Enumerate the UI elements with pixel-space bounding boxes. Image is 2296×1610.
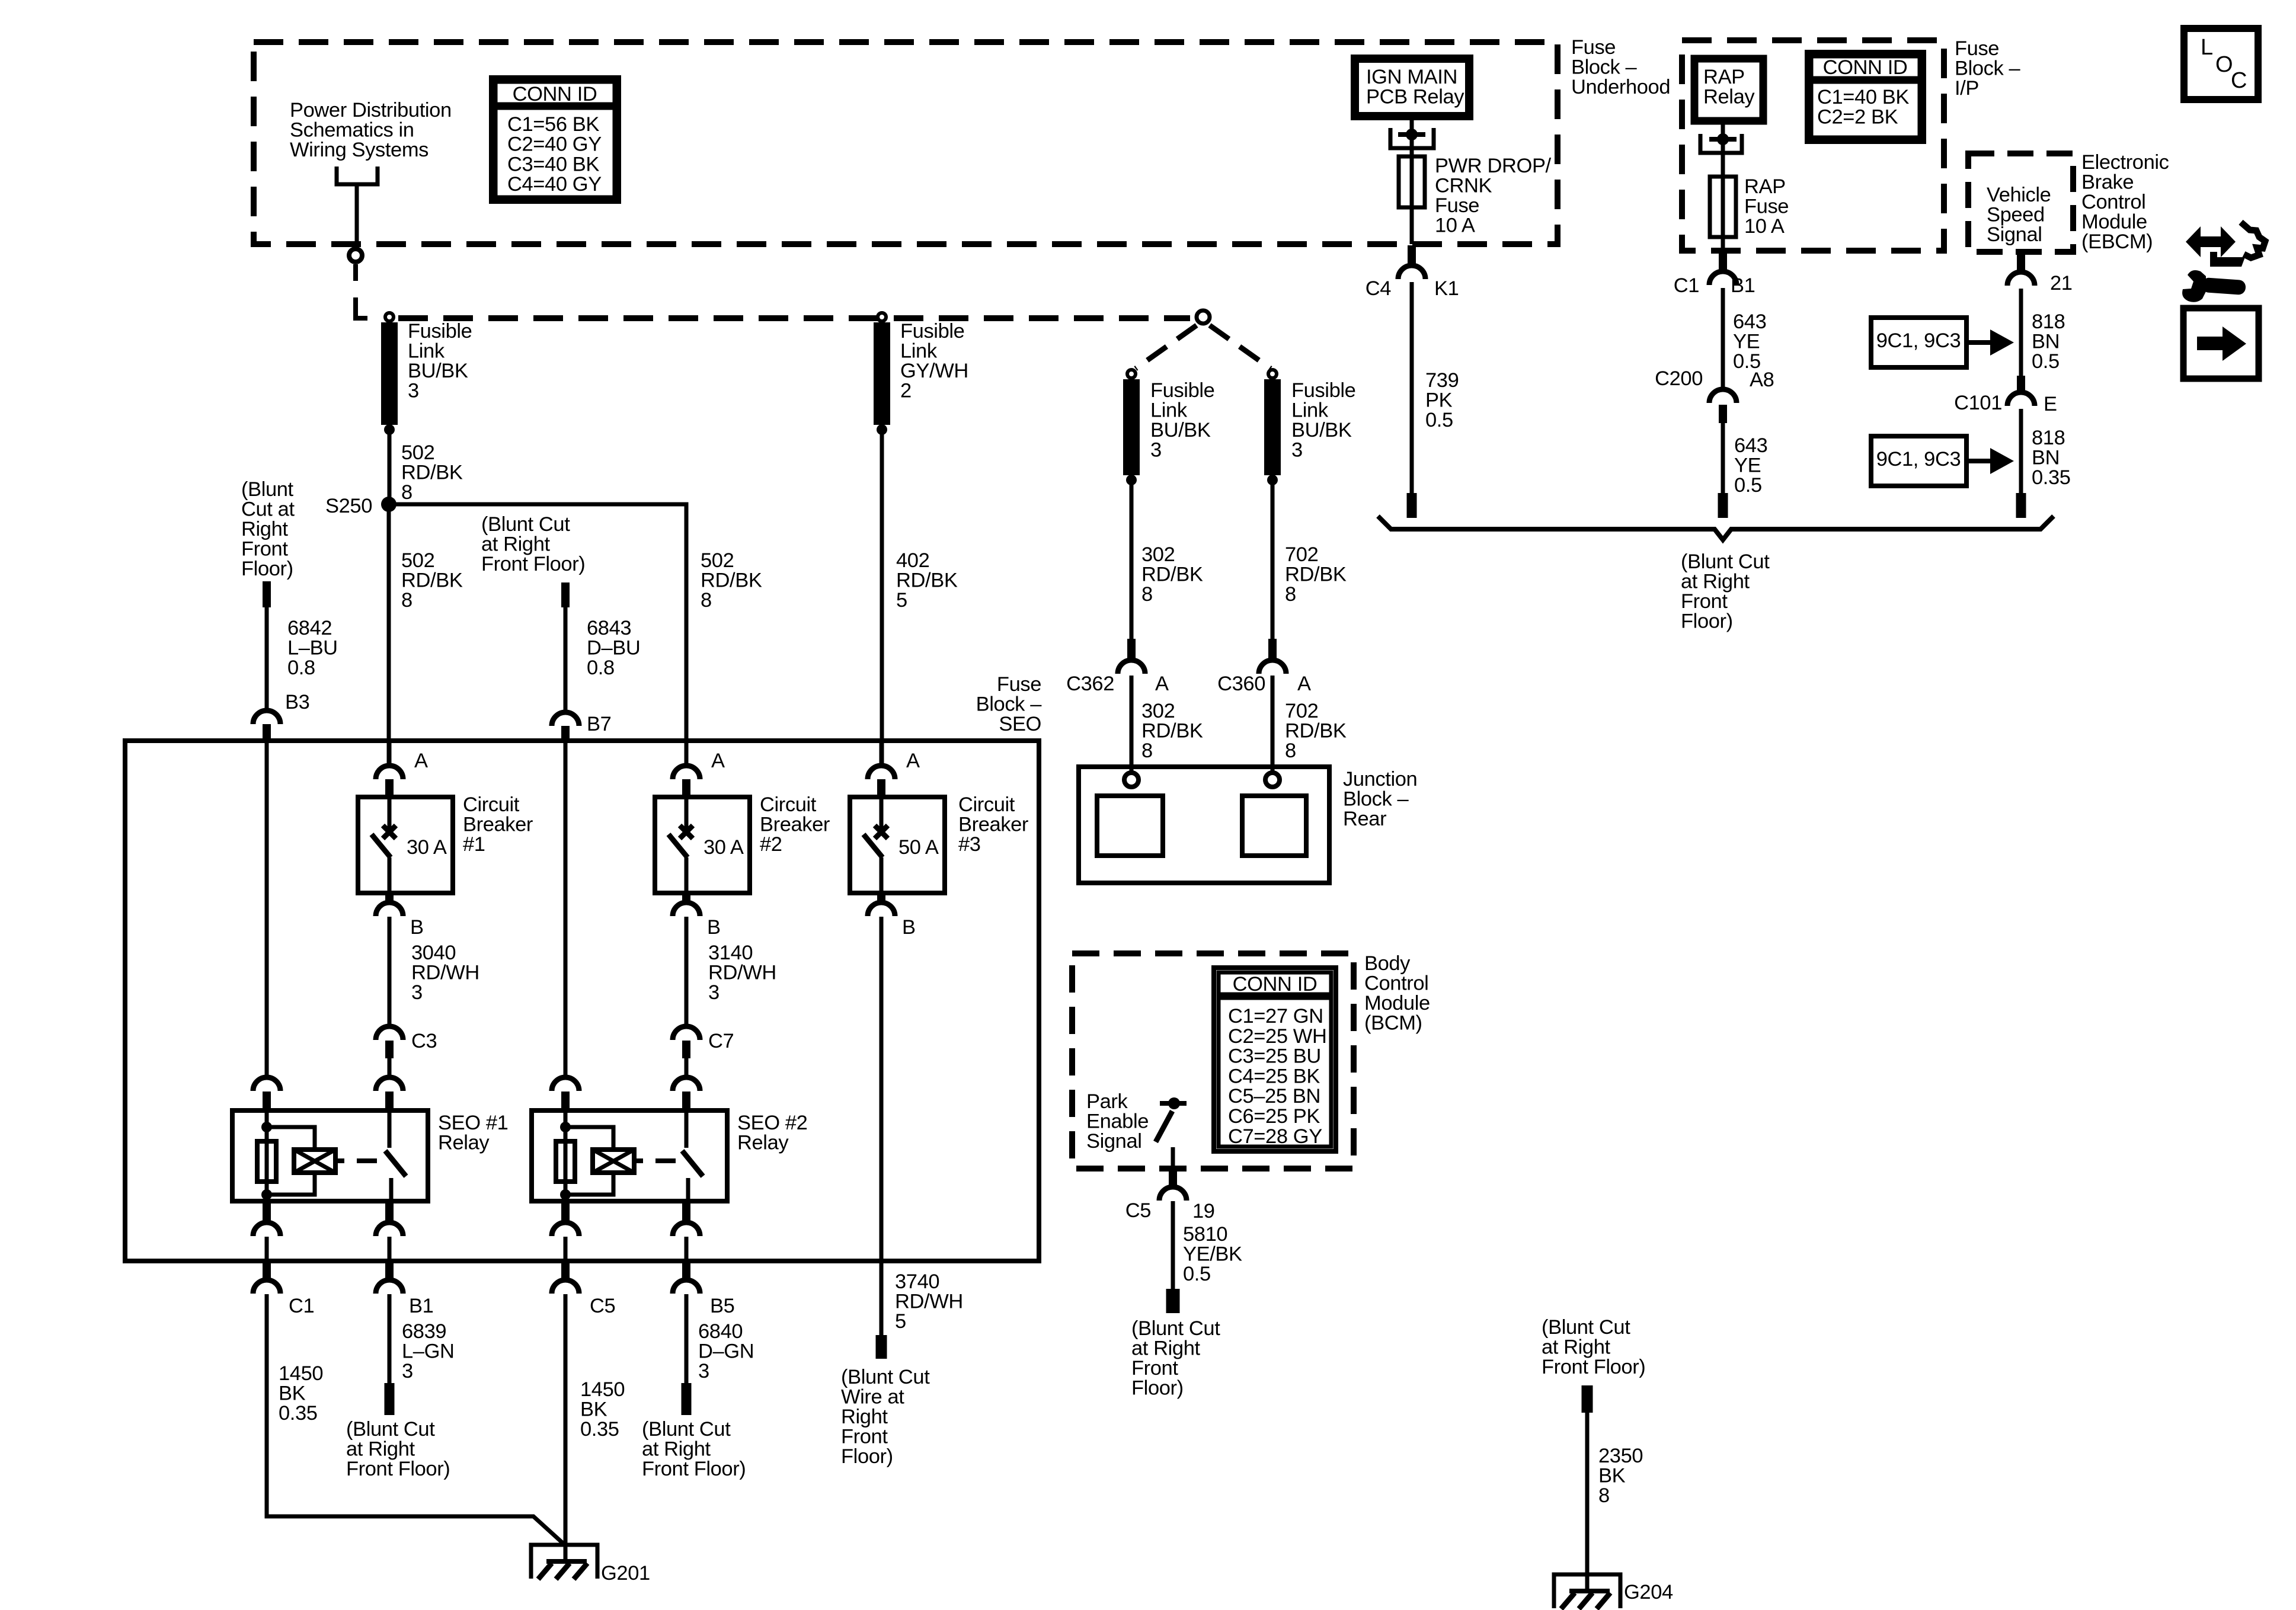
svg-text:CONN ID: CONN ID — [1823, 56, 1908, 79]
wire 643 YE upper — [1721, 288, 1725, 389]
fusible link BU/BK 3 (right of pair) — [1268, 370, 1277, 378]
blunt cut stub 3740 wire — [876, 1335, 887, 1359]
blunt cut stub 2350 wire — [1582, 1385, 1593, 1413]
svg-text:O: O — [2215, 52, 2233, 77]
connector SEO box output pin stub — [561, 1261, 570, 1280]
connector A arc breaker 3 — [868, 766, 895, 779]
connector SEO box output pin stub — [682, 1261, 690, 1280]
svg-text:B: B — [410, 916, 424, 939]
svg-text:50 A: 50 A — [898, 836, 939, 859]
connector SEO box output pin stub — [385, 1261, 394, 1280]
svg-text:C4: C4 — [1366, 277, 1392, 300]
relay SEO #1 coil top dot — [261, 1122, 272, 1132]
connector B pin stub breaker 2 — [682, 893, 690, 902]
svg-text:C1: C1 — [289, 1295, 314, 1317]
connector relay output pin stub — [561, 1201, 570, 1222]
fusible link GY/WH 2 — [878, 313, 886, 321]
connector A arc breaker 1 — [376, 766, 403, 779]
wire to SEO box edge — [685, 1237, 689, 1261]
relay SEO #2 switch — [685, 1110, 689, 1148]
svg-text:IGN MAINPCB Relay: IGN MAINPCB Relay — [1366, 66, 1464, 108]
connector B pin stub breaker 3 — [877, 893, 885, 902]
connector C5 pin stub BCM — [1169, 1171, 1177, 1187]
wire 818 BN lower — [2019, 409, 2023, 493]
CONN ID table I/P — [1807, 52, 1924, 142]
svg-text:CONN ID: CONN ID — [513, 83, 597, 105]
relay SEO #2 solenoid box — [593, 1150, 634, 1173]
relay SEO #2 box — [532, 1110, 727, 1201]
svg-text:B1: B1 — [409, 1295, 433, 1317]
connector B3 arc — [253, 710, 280, 724]
diagnostic icon neck bar — [2210, 252, 2245, 267]
connector relay output arc — [253, 1222, 280, 1236]
blunt cut stub 5810 wire — [1166, 1289, 1180, 1313]
fuse PWR DROP/CRNK 10A — [1399, 156, 1425, 207]
relay SEO #1 coil bottom dot — [261, 1189, 272, 1200]
dashed diagonal to link 3 — [1136, 325, 1197, 369]
fuse block SEO box — [125, 741, 1039, 1261]
svg-text:C3: C3 — [411, 1030, 437, 1052]
relay SEO #1 solenoid box — [294, 1150, 335, 1173]
breaker 3 internals — [880, 797, 884, 828]
svg-text:B: B — [707, 916, 721, 939]
relay SEO #2 coil bottom dot — [560, 1189, 571, 1200]
connector relay output pin stub — [385, 1201, 394, 1222]
svg-text:9C1, 9C3: 9C1, 9C3 — [1876, 448, 1961, 470]
wire bus to breaker 2 — [685, 741, 689, 766]
junction block rear box — [1079, 767, 1329, 883]
svg-text:30 A: 30 A — [703, 836, 744, 859]
circuit breaker #1 box — [358, 797, 453, 893]
junction dot K1 pin — [1406, 129, 1418, 140]
relay SEO #1 actuation dashes — [335, 1158, 344, 1163]
connector C101 pin stub — [2017, 376, 2025, 392]
wire fusible link 2 to breaker 3 — [880, 434, 884, 764]
junction block cavity right — [1242, 796, 1306, 856]
connector C7 upper arc — [673, 1026, 700, 1040]
svg-text:A: A — [414, 750, 428, 772]
diagnostic icon wrench — [2182, 270, 2206, 302]
svg-text:C1=56 BKC2=40 GYC3=40 BKC4=40: C1=56 BKC2=40 GYC3=40 BKC4=40 GY — [507, 113, 602, 196]
wire 739 PK — [1410, 282, 1414, 493]
wire 6839 L-GN from B1 — [388, 1294, 392, 1383]
CONN ID table BCM — [1214, 968, 1336, 1151]
connector C4 arc — [1398, 265, 1425, 279]
wire 6840 D-GN from B5 — [685, 1294, 689, 1383]
wire breaker3 B to bottom — [880, 917, 884, 1335]
svg-text:C1=27 GNC2=25 WHC3=25 BUC4=25: C1=27 GNC2=25 WHC3=25 BUC4=25 BKC5–25 BN… — [1228, 1005, 1327, 1148]
circuit breaker #3 box — [850, 797, 945, 893]
connector relay output arc — [552, 1222, 579, 1236]
connector B3 pin stub — [263, 724, 271, 741]
svg-text:B: B — [902, 916, 916, 939]
LOC reference box — [2184, 28, 2258, 100]
wire 2350 BK — [1585, 1413, 1590, 1591]
connector SEO1 coil pin stub — [263, 1092, 271, 1110]
svg-text:C362: C362 — [1066, 673, 1114, 695]
svg-text:C5: C5 — [590, 1295, 615, 1317]
svg-text:B5: B5 — [710, 1295, 734, 1317]
connector relay output arc — [376, 1222, 403, 1236]
ground G204 — [1554, 1574, 1620, 1608]
underhood internal dashed bus — [398, 315, 1190, 321]
svg-text:C360: C360 — [1217, 673, 1265, 695]
park enable switch — [1160, 1101, 1187, 1106]
wire 6843 D-BU — [564, 607, 568, 712]
connector SEO1 coil arc — [253, 1077, 280, 1091]
svg-text:S250: S250 — [325, 495, 372, 517]
wire 1450 BK from C5 to ground — [564, 1294, 568, 1561]
connector B7 pin stub — [561, 726, 570, 741]
blunt cut stub B1 wire — [385, 1383, 395, 1415]
wire bus to breaker 1 — [388, 741, 392, 766]
svg-text:21: 21 — [2050, 272, 2073, 295]
relay RAP Relay — [1694, 59, 1763, 121]
fuse block underhood dashed box — [254, 42, 1558, 244]
connector A pin stub breaker 1 — [385, 779, 394, 797]
wire bus to breaker 3 — [880, 741, 884, 766]
wire bus to SEO1 relay coil — [265, 741, 269, 1077]
ground G201 — [531, 1545, 597, 1579]
connector C7 pin stub — [682, 1041, 690, 1058]
wire from power distribution bracket — [355, 184, 359, 247]
arrow to wire upper — [1966, 340, 1993, 345]
svg-text:A: A — [906, 750, 920, 772]
connector A pin stub breaker 2 — [682, 779, 690, 797]
connector B arc breaker 3 — [868, 902, 895, 916]
svg-text:B3: B3 — [285, 691, 309, 713]
svg-text:C: C — [2231, 68, 2247, 93]
connector C4 pin stub — [1408, 245, 1416, 265]
svg-text:E: E — [2044, 393, 2057, 415]
reference box 9C1 9C3 upper — [1871, 318, 1966, 367]
svg-text:G204: G204 — [1624, 1581, 1673, 1603]
wire 302 RD/BK to C362 — [1130, 485, 1134, 639]
svg-text:A8: A8 — [1750, 369, 1774, 391]
svg-text:(BluntCut atRightFrontFloor): (BluntCut atRightFrontFloor) — [241, 478, 295, 580]
blunt cut stub B3 column — [263, 581, 271, 607]
connector A arc breaker 2 — [673, 766, 700, 779]
wire RAP relay to pin bracket — [1721, 121, 1725, 251]
connector SEO box output arc — [253, 1280, 280, 1294]
wire breaker2 B to C7 — [685, 917, 689, 1026]
diagnostic icon head outline — [2241, 222, 2265, 258]
connector SEO box output arc — [673, 1280, 700, 1294]
junction block cavity left — [1097, 796, 1163, 856]
connector C3 pin stub — [385, 1041, 394, 1058]
blunt cut gathering brace — [1378, 516, 2054, 540]
dashed diagonal to link 4 — [1210, 325, 1271, 369]
wire S250 down to breaker 1 — [387, 504, 391, 764]
CONN ID table underhood — [491, 78, 619, 201]
svg-text:G201: G201 — [601, 1562, 650, 1585]
wire relay to pin bracket — [1410, 116, 1414, 244]
connector C7 lower arc — [673, 1077, 700, 1091]
wire S250 branch to breaker 2 column — [389, 504, 686, 764]
relay SEO #1 coil leg — [265, 1110, 269, 1201]
wire between C7 arcs — [685, 1058, 689, 1077]
wire to SEO box edge — [564, 1237, 568, 1261]
svg-text:C200: C200 — [1655, 367, 1703, 390]
relay SEO #1 solenoid branch — [267, 1127, 315, 1150]
wire breaker1 B to C3 — [388, 917, 392, 1026]
next page arrow box — [2183, 308, 2259, 379]
blunt cut stub C4 wire — [1407, 493, 1417, 518]
svg-text:C1: C1 — [1674, 274, 1699, 297]
svg-text:K1: K1 — [1434, 277, 1459, 300]
wire C360 to junction block — [1271, 676, 1275, 772]
svg-text:C1=40 BKC2=2 BK: C1=40 BKC2=2 BK — [1817, 86, 1909, 129]
svg-text:B1: B1 — [1731, 274, 1755, 297]
wire bus to SEO2 relay coil — [564, 741, 568, 1077]
svg-text:A: A — [711, 750, 725, 772]
connector SEO box output arc — [376, 1280, 403, 1294]
relay SEO #2 coil leg — [564, 1110, 568, 1201]
connector C1/B1 pin stub — [1719, 252, 1727, 271]
pin bracket IGN relay — [1390, 128, 1434, 148]
blunt cut stub B7 column — [561, 582, 570, 607]
connector C200 pin stub — [1719, 405, 1727, 423]
fusible link BU/BK 3 (left of pair) — [1127, 370, 1136, 378]
relay SEO #1 box — [232, 1110, 428, 1201]
connector SEO box output pin stub — [263, 1261, 271, 1280]
connector SEO2 coil arc — [552, 1077, 579, 1091]
connector C362 pin stub — [1127, 639, 1136, 660]
wire 702 RD/BK to C360 — [1271, 485, 1275, 639]
wire between C3 arcs — [388, 1058, 392, 1077]
node circle on underhood box edge — [349, 249, 362, 262]
svg-text:C101: C101 — [1954, 392, 2002, 414]
connector SEO2 coil pin stub — [561, 1092, 570, 1110]
svg-text:L: L — [2201, 35, 2213, 60]
connector C7 pin stub lower — [682, 1092, 690, 1110]
blunt cut stub B5 wire — [682, 1383, 692, 1415]
connector relay output arc — [673, 1222, 700, 1236]
svg-text:9C1, 9C3: 9C1, 9C3 — [1876, 329, 1961, 352]
svg-text:CONN ID: CONN ID — [1233, 973, 1318, 996]
connector A pin stub breaker 3 — [877, 779, 885, 797]
blunt cut stub 818 wire — [2016, 493, 2026, 518]
wire 643 YE lower — [1721, 423, 1725, 493]
wire 5810 YE/BK — [1171, 1201, 1175, 1289]
wire to SEO box edge — [388, 1237, 392, 1261]
connector B pin stub breaker 1 — [385, 893, 394, 902]
svg-text:C7: C7 — [708, 1030, 734, 1052]
connector B arc breaker 1 — [376, 902, 403, 916]
relay SEO #2 suppression resistor — [556, 1141, 575, 1182]
svg-text:19: 19 — [1192, 1200, 1215, 1222]
dashed wire from node to internal bus — [353, 264, 358, 281]
svg-text:RAPFuse10 A: RAPFuse10 A — [1744, 175, 1789, 238]
connector C1 B1 arc — [1709, 271, 1737, 285]
wire to SEO box edge — [265, 1237, 269, 1261]
svg-text:30 A: 30 A — [407, 836, 447, 859]
svg-text:VehicleSpeedSignal: VehicleSpeedSignal — [1987, 184, 2051, 246]
fuse RAP Fuse 10A — [1710, 177, 1736, 237]
wire 1450 BK from C1 — [267, 1294, 565, 1545]
relay SEO #1 suppression resistor — [257, 1141, 276, 1182]
connector C5 arc BCM — [1159, 1187, 1187, 1201]
junction block terminal circle left — [1124, 773, 1139, 787]
connector relay output pin stub — [682, 1201, 690, 1222]
connector C360 pin stub — [1268, 639, 1277, 660]
relay SEO #1 switch — [388, 1110, 392, 1148]
circuit breaker #2 box — [655, 797, 750, 893]
svg-text:C5: C5 — [1125, 1199, 1151, 1222]
wire C362 to junction block — [1130, 676, 1134, 772]
svg-text:A: A — [1155, 673, 1169, 695]
body control module dashed box — [1072, 953, 1354, 1169]
svg-text:A: A — [1297, 673, 1311, 695]
arrow to wire lower — [1966, 459, 1993, 463]
connector C3 pin stub lower — [385, 1092, 394, 1110]
wire 6842 L-BU — [265, 607, 269, 710]
connector C3 upper arc — [376, 1026, 403, 1040]
connector C200 arc — [1709, 389, 1737, 403]
breaker 1 internals — [388, 797, 392, 828]
wire 502 above S250 — [388, 434, 392, 501]
relay SEO #2 solenoid branch — [565, 1127, 613, 1150]
connector 21 arc — [2007, 272, 2035, 286]
connector C360 arc — [1259, 660, 1286, 674]
power distribution connection bracket — [337, 167, 378, 184]
relay SEO #2 coil top dot — [560, 1122, 571, 1132]
connector B7 arc — [552, 712, 579, 726]
connector C101 arc — [2007, 392, 2035, 406]
pin bracket RAP relay — [1700, 134, 1742, 153]
diagnostic icon double arrow — [2186, 226, 2236, 257]
fusible link BU/BK 3 first — [385, 313, 394, 321]
junction block terminal circle right — [1265, 773, 1280, 787]
node circle splice peak — [1197, 311, 1210, 324]
reference box 9C1 9C3 lower — [1871, 436, 1966, 486]
breaker 2 internals — [685, 797, 689, 828]
fuse block I/P dashed box — [1682, 40, 1944, 251]
blunt cut stub C200 wire — [1718, 493, 1728, 518]
connector C362 arc — [1118, 660, 1145, 674]
connector B arc breaker 2 — [673, 902, 700, 916]
connector 21 pin stub — [2017, 252, 2025, 272]
svg-text:B7: B7 — [587, 713, 611, 735]
connector relay output pin stub — [263, 1201, 271, 1222]
relay SEO #2 actuation dashes — [634, 1158, 643, 1163]
junction S250 — [381, 497, 396, 512]
connector C3 lower arc — [376, 1077, 403, 1091]
EBCM vehicle speed signal dashed box — [1968, 153, 2073, 252]
wire 818 BN upper — [2019, 289, 2023, 376]
relay IGN MAIN PCB Relay — [1355, 59, 1469, 116]
connector SEO box output arc — [552, 1280, 579, 1294]
junction dot RAP pin — [1717, 133, 1729, 145]
